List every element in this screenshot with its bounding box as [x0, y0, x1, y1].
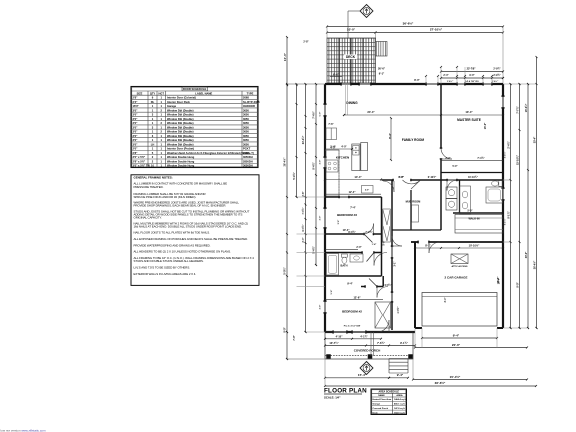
- svg-text:TYPE: TYPE: [247, 91, 254, 95]
- hall second arc: [383, 181, 394, 192]
- svg-text:7'-4¾": 7'-4¾": [477, 157, 484, 160]
- wall master suite bottom: [441, 179, 447, 181]
- svg-text:OHDOOR: OHDOOR: [243, 104, 255, 108]
- svg-text:30'-4": 30'-4": [533, 137, 536, 144]
- svg-text:2'-0": 2'-0": [356, 246, 361, 249]
- svg-text:15'-10¾": 15'-10¾": [516, 155, 519, 165]
- svg-text:2850DH: 2850DH: [243, 159, 253, 163]
- svg-text:9'-1¾": 9'-1¾": [507, 211, 510, 218]
- svg-text:ATTIC ACCESS: ATTIC ACCESS: [452, 265, 468, 268]
- svg-text:3050DH: 3050DH: [243, 155, 253, 159]
- door/window schedule table: [131, 87, 258, 168]
- svg-text:3'-0": 3'-0": [320, 216, 322, 221]
- svg-text:3050: 3050: [243, 117, 249, 121]
- fridge: [326, 128, 337, 140]
- svg-text:4'-0": 4'-0": [341, 146, 347, 149]
- svg-text:16'-0¾": 16'-0¾": [525, 104, 528, 112]
- svg-text:10'-10¾": 10'-10¾": [468, 176, 478, 179]
- master bath chase wall: [441, 172, 503, 174]
- svg-text:2'4": 2'4": [133, 100, 139, 104]
- svg-text:Window Dbl (Double): Window Dbl (Double): [167, 134, 194, 138]
- svg-text:1'-4": 1'-4": [372, 243, 377, 246]
- svg-text:36'-6½": 36'-6½": [435, 381, 446, 385]
- family room dim 8-4: [390, 118, 392, 160]
- svg-text:13'-4": 13'-4": [465, 110, 473, 114]
- svg-text:2'-8": 2'-8": [303, 41, 308, 44]
- svg-text:BEDROOM #2: BEDROOM #2: [342, 310, 362, 314]
- door hall2: [392, 236, 402, 246]
- svg-text:Interior Door Pack: Interior Door Pack: [167, 100, 190, 104]
- pantry box: [362, 186, 374, 194]
- svg-text:10'-7¼": 10'-7¼": [329, 341, 339, 345]
- master tub: [486, 187, 503, 203]
- svg-text:7'-4": 7'-4": [350, 205, 356, 209]
- svg-text:6'-0": 6'-0": [333, 73, 340, 77]
- svg-text:Window Dbl (Double): Window Dbl (Double): [167, 125, 194, 129]
- front door: [377, 320, 389, 332]
- svg-text:PROVIDE WATERPROOFING AND DRAI: PROVIDE WATERPROOFING AND DRAINS AS REQU…: [134, 243, 211, 247]
- svg-text:3'0": 3'0": [133, 134, 139, 138]
- svg-text:2'0": 2'0": [133, 147, 139, 151]
- garage top wall: [411, 241, 418, 243]
- svg-text:5'-0": 5'-0": [468, 211, 473, 213]
- svg-text:low rez version www.zillstatic: low rez version www.zillstatic.com: [1, 428, 47, 432]
- svg-text:2'8" x 5'0": 2'8" x 5'0": [133, 159, 146, 163]
- svg-text:Window Dbl (Double): Window Dbl (Double): [167, 113, 194, 117]
- right exterior wall: [502, 84, 504, 96]
- wall mudroom top: [382, 179, 394, 181]
- svg-text:16d NAILS AT EACH END. DOUBLE: 16d NAILS AT EACH END. DOUBLE ALL STUDS …: [134, 225, 243, 229]
- covered porch outline: [325, 332, 413, 359]
- washer/dryer stack: [446, 187, 457, 199]
- svg-text:36'-6½": 36'-6½": [403, 22, 414, 26]
- left dim chain 4: [315, 84, 317, 265]
- svg-text:23'-7/8": 23'-7/8": [467, 67, 477, 70]
- dim 15-4.5 bottom right: [413, 379, 527, 381]
- dim 15-4 / 9-4 bottom: [325, 377, 389, 379]
- kitchen counter: [326, 150, 339, 196]
- svg-text:Window Dbl (Double): Window Dbl (Double): [167, 121, 194, 125]
- svg-text:3'0": 3'0": [133, 125, 139, 129]
- svg-text:2'-0": 2'-0": [303, 238, 305, 243]
- svg-text:3'-0": 3'-0": [320, 160, 322, 165]
- hall closet bifold: [383, 209, 391, 242]
- svg-text:AREA: AREA: [396, 394, 403, 397]
- svg-text:BEDROOM #3: BEDROOM #3: [337, 213, 357, 217]
- svg-text:NAME: NAME: [378, 394, 385, 397]
- svg-text:5'-9": 5'-9": [365, 190, 369, 192]
- wall kitchen bottom: [325, 196, 339, 198]
- svg-text:LVL'S AND TJI'S TO BE SIZED BY: LVL'S AND TJI'S TO BE SIZED BY OTHERS.: [134, 266, 191, 270]
- svg-text:5'-4": 5'-4": [330, 290, 333, 295]
- svg-text:5'-0": 5'-0": [453, 166, 458, 168]
- wall bedroom2 entry: [361, 286, 365, 288]
- svg-text:Window Double Hung: Window Double Hung: [167, 155, 195, 159]
- svg-text:SL-BYP-2468: SL-BYP-2468: [243, 100, 260, 104]
- right dim chain 2: [519, 84, 521, 328]
- svg-text:DECK: DECK: [346, 55, 356, 59]
- bath tub: [327, 254, 339, 276]
- svg-text:2'-9¾": 2'-9¾": [493, 67, 500, 70]
- svg-text:10'-0": 10'-0": [347, 28, 356, 32]
- svg-text:3050: 3050: [243, 121, 249, 125]
- svg-text:8'-1": 8'-1": [425, 244, 431, 248]
- wall walk-in top: [453, 212, 503, 214]
- svg-text:3050: 3050: [243, 130, 249, 134]
- svg-text:3'-6": 3'-6": [338, 220, 340, 225]
- svg-text:HGT: HGT: [159, 91, 165, 95]
- svg-text:7'-4½": 7'-4½": [312, 111, 316, 118]
- svg-text:WALK-IN: WALK-IN: [468, 217, 479, 221]
- svg-text:3050: 3050: [243, 142, 249, 146]
- interior dim 24-4 / 13-4: [344, 114, 503, 116]
- dim porch detail: [325, 345, 415, 347]
- wall bath top: [325, 252, 362, 254]
- svg-text:2'-8": 2'-8": [303, 192, 305, 197]
- dim 36-6.5 top: [327, 26, 503, 28]
- svg-text:7'-0": 7'-0": [293, 335, 296, 340]
- svg-text:16'0": 16'0": [133, 104, 140, 108]
- svg-text:27'-10½": 27'-10½": [430, 28, 443, 32]
- dim garage 20-0: [415, 347, 527, 349]
- closet bifold bedroom2: [375, 302, 391, 328]
- top-right window dims: [441, 71, 503, 73]
- top exterior wall: [325, 83, 341, 85]
- stove: [326, 160, 338, 172]
- svg-text:DOOR SCHEDULE: DOOR SCHEDULE: [183, 87, 207, 91]
- right dim chain 1: [510, 84, 512, 328]
- bath toilet: [342, 254, 348, 257]
- svg-text:30'-0": 30'-0": [525, 252, 528, 259]
- door laundry: [447, 180, 458, 191]
- svg-text:10'-10½": 10'-10½": [469, 244, 480, 248]
- svg-text:14'-4": 14'-4": [354, 175, 362, 179]
- door bedroom2: [377, 287, 388, 298]
- svg-text:EXTERIOR WALLS IN LIVING AREAS: EXTERIOR WALLS IN LIVING AREAS ARE 2 X 4…: [134, 272, 197, 276]
- svg-text:3'0": 3'0": [133, 117, 139, 121]
- svg-text:9'-4": 9'-4": [347, 281, 353, 285]
- svg-text:3'-1": 3'-1": [395, 262, 397, 267]
- svg-text:AREA SCHEDULE: AREA SCHEDULE: [379, 390, 400, 393]
- svg-text:PRESSURE TREATED.: PRESSURE TREATED.: [134, 185, 164, 189]
- left dim chain 2: [296, 85, 298, 197]
- svg-text:KITCHEN: KITCHEN: [336, 156, 349, 160]
- svg-text:7'-6": 7'-6": [328, 123, 333, 126]
- svg-text:9'-0": 9'-0": [469, 74, 474, 77]
- svg-text:Covered Porch: Covered Porch: [373, 408, 389, 410]
- dim 36-6.5 bottom: [325, 385, 536, 387]
- svg-text:9'-0": 9'-0": [283, 327, 286, 332]
- svg-text:GENERAL FRAMING NOTES:: GENERAL FRAMING NOTES:: [134, 175, 173, 179]
- svg-text:ALL EXPOSED FRAMING ON PORCHES: ALL EXPOSED FRAMING ON PORCHES AND DECKS…: [134, 237, 249, 241]
- svg-text:36'-4½": 36'-4½": [282, 157, 286, 167]
- svg-text:4'-10": 4'-10": [336, 335, 344, 338]
- misc ticks interior: [324, 179, 326, 181]
- svg-text:10'-0": 10'-0": [283, 52, 287, 61]
- svg-text:9'-4": 9'-4": [453, 333, 460, 337]
- svg-text:7'-6¾": 7'-6¾": [377, 341, 386, 345]
- svg-text:2'-4": 2'-4": [443, 74, 448, 77]
- hall door panels: [364, 234, 373, 243]
- extension lines bottom: [414, 328, 416, 348]
- svg-text:24'-4¾": 24'-4¾": [302, 136, 305, 144]
- bath door arc: [374, 253, 387, 266]
- svg-text:2068: 2068: [243, 96, 249, 100]
- kitchen upper cabinets dashed: [338, 150, 340, 196]
- left dim 10-0 deck: [286, 37, 288, 85]
- svg-text:MASTER SUITE: MASTER SUITE: [457, 118, 481, 122]
- left dim chain 3: [305, 84, 307, 332]
- svg-text:LABEL NAME: LABEL NAME: [195, 91, 212, 95]
- dining extension lines: [345, 84, 347, 115]
- svg-text:164.0 sq ft: 164.0 sq ft: [394, 411, 405, 414]
- svg-text:12'-4": 12'-4": [349, 191, 357, 194]
- wall bedroom3 bottom: [325, 233, 364, 235]
- svg-text:2'-9¾": 2'-9¾": [493, 74, 500, 77]
- svg-text:8'-0¾": 8'-0¾": [348, 231, 355, 234]
- wall bath bottom: [325, 275, 382, 277]
- svg-text:3050: 3050: [243, 113, 249, 117]
- svg-text:1'-4": 1'-4": [330, 146, 336, 149]
- svg-text:3'0" x 5'0" TW: 3'0" x 5'0" TW: [133, 164, 151, 168]
- svg-text:Weathershield Ashford Arch Fib: Weathershield Ashford Arch Fiberglass Ex…: [167, 151, 254, 155]
- dim 10-0 deck top: [327, 32, 376, 34]
- svg-text:FAMILY ROOM: FAMILY ROOM: [402, 138, 424, 142]
- svg-text:Window Dbl (Double): Window Dbl (Double): [167, 130, 194, 134]
- dim 27-10.5 top: [376, 32, 504, 34]
- svg-text:1464.4 sq ft: 1464.4 sq ft: [394, 398, 406, 401]
- svg-text:9'-4¾": 9'-4¾": [313, 162, 316, 169]
- garage left wall: [414, 242, 416, 328]
- svg-text:2'8": 2'8": [133, 96, 139, 100]
- porch steps: [389, 358, 408, 360]
- svg-text:SPRUCE PINE FIR #1 AND/OR #2 (: SPRUCE PINE FIR #1 AND/OR #2 (KILN DRIED…: [134, 195, 197, 199]
- svg-text:Interior Door (Colonial): Interior Door (Colonial): [167, 96, 196, 100]
- svg-text:Window Dbl (Double): Window Dbl (Double): [167, 108, 194, 112]
- dim garage 9-4: [422, 337, 497, 339]
- svg-text:3'0" x 5'0": 3'0" x 5'0": [133, 155, 146, 159]
- deck label: [344, 55, 357, 60]
- mudroom wall: [410, 190, 412, 230]
- mudroom bench: [412, 205, 419, 222]
- svg-text:5'-0¾": 5'-0¾": [283, 267, 286, 274]
- island sink: [353, 146, 359, 156]
- svg-text:2868: 2868: [243, 151, 249, 155]
- svg-text:26'-6": 26'-6": [378, 66, 386, 70]
- svg-text:Heated Floor Area: Heated Floor Area: [373, 398, 393, 401]
- garage front wall: [415, 327, 422, 329]
- svg-text:3050: 3050: [243, 134, 249, 138]
- svg-text:5'-0": 5'-0": [320, 112, 322, 117]
- ticks right chains: [510, 83, 512, 85]
- master toilet: [492, 181, 499, 186]
- svg-text:Deck: Deck: [373, 412, 379, 414]
- hall wall left: [381, 197, 383, 276]
- svg-text:2 CAR GARAGE: 2 CAR GARAGE: [444, 276, 467, 280]
- svg-text:8'-4": 8'-4": [388, 132, 392, 139]
- svg-text:PCKT: PCKT: [243, 147, 251, 151]
- svg-text:9'-4": 9'-4": [397, 373, 404, 377]
- svg-text:2'-0¾": 2'-0¾": [365, 231, 372, 234]
- svg-text:RL: RL: [151, 100, 155, 104]
- deck stairs: [376, 42, 388, 57]
- svg-text:ALL HEADERS TO BE (2) 2 X 10 U: ALL HEADERS TO BE (2) 2 X 10 UNLESS NOTE…: [134, 250, 232, 254]
- porch post lines: [370, 332, 372, 356]
- svg-text:7'-0¾": 7'-0¾": [302, 208, 305, 215]
- svg-text:15'-4½": 15'-4½": [450, 375, 461, 379]
- svg-text:Garage: Garage: [373, 404, 381, 406]
- svg-text:Window Dbl (Double): Window Dbl (Double): [167, 138, 194, 142]
- svg-text:9'-1¾": 9'-1¾": [504, 219, 507, 226]
- section marker (top): [360, 5, 373, 18]
- master vanity: [460, 186, 471, 214]
- svg-text:3'0": 3'0": [133, 121, 139, 125]
- porch posts: [327, 355, 331, 359]
- svg-text:6'-0¾": 6'-0¾": [385, 284, 392, 287]
- svg-text:3'-0": 3'-0": [320, 305, 322, 310]
- svg-text:5'-9¾": 5'-9¾": [293, 172, 296, 179]
- svg-text:4'-0": 4'-0": [398, 176, 403, 179]
- svg-text:2'-5¾": 2'-5¾": [504, 152, 507, 159]
- svg-text:NAIL FLOOR JOISTS TO ALL PLATE: NAIL FLOOR JOISTS TO ALL PLATES WITH 8d …: [134, 231, 211, 235]
- garage door panel: [422, 293, 497, 327]
- svg-text:6'-10½": 6'-10½": [428, 175, 436, 179]
- svg-text:3050DH: 3050DH: [243, 164, 253, 168]
- svg-text:20'-0": 20'-0": [452, 343, 461, 347]
- kitchen island: [352, 144, 360, 171]
- svg-text:16'-4": 16'-4": [498, 278, 501, 285]
- svg-text:MUD ROOM: MUD ROOM: [406, 200, 421, 204]
- svg-text:DINING: DINING: [346, 101, 358, 105]
- bottom exterior wall (bedroom wing): [325, 331, 333, 333]
- svg-text:466.1 sq ft: 466.1 sq ft: [394, 403, 405, 406]
- svg-text:9'-1¾": 9'-1¾": [400, 341, 409, 345]
- svg-text:14'-4 7/8" RO: 14'-4 7/8" RO: [465, 80, 479, 83]
- svg-text:QTY: QTY: [150, 91, 156, 95]
- svg-text:Window Double Hung: Window Double Hung: [167, 164, 195, 168]
- svg-text:3050: 3050: [243, 125, 249, 129]
- svg-text:3'-4": 3'-4": [444, 298, 447, 303]
- svg-text:6'-0¾": 6'-0¾": [302, 225, 305, 232]
- right dim chain 3: [527, 84, 529, 328]
- svg-text:Window Double Hung: Window Double Hung: [167, 159, 195, 163]
- svg-text:4'-1¾": 4'-1¾": [360, 335, 368, 338]
- svg-text:2'-4¾": 2'-4¾": [507, 141, 510, 148]
- area schedule table: [371, 389, 407, 415]
- wall mudroom/hall: [392, 229, 441, 231]
- deck joist lines: [338, 38, 340, 83]
- svg-text:3050: 3050: [243, 138, 249, 142]
- svg-text:9'-0": 9'-0": [516, 282, 519, 287]
- svg-text:Window Dbl (Double): Window Dbl (Double): [167, 117, 194, 121]
- svg-text:3050: 3050: [243, 108, 249, 112]
- svg-text:Garage: Garage: [167, 104, 177, 108]
- walk-in shelves: [455, 215, 503, 234]
- svg-text:Window Dbl (Double): Window Dbl (Double): [167, 142, 194, 146]
- svg-text:16'-0": 16'-0": [484, 123, 487, 130]
- general framing notes box: [131, 175, 259, 286]
- svg-text:LH: LH: [151, 142, 155, 146]
- extension lines left: [297, 196, 326, 198]
- laundry wall: [459, 180, 461, 213]
- svg-text:2'8": 2'8": [133, 151, 139, 155]
- svg-text:SIZE: SIZE: [137, 91, 143, 95]
- svg-text:FLOOR PLAN: FLOOR PLAN: [324, 388, 367, 395]
- svg-text:15'-4": 15'-4": [358, 373, 367, 377]
- svg-text:7'-7¾": 7'-7¾": [516, 106, 519, 113]
- svg-text:BATH: BATH: [340, 264, 347, 268]
- svg-text:3'0": 3'0": [133, 130, 139, 134]
- svg-text:2'-4": 2'-4": [445, 157, 450, 160]
- svg-text:5'-8": 5'-8": [384, 241, 386, 246]
- svg-text:COVERED PORCH: COVERED PORCH: [354, 349, 381, 353]
- deck with board hatch: [327, 38, 376, 83]
- svg-text:3'0": 3'0": [133, 138, 139, 142]
- svg-text:24'-4": 24'-4": [367, 110, 375, 114]
- hall wall right: [391, 180, 393, 246]
- garage entry door arc: [429, 242, 440, 253]
- wall bedroom2 entry side: [382, 276, 384, 287]
- svg-text:147.8 sq ft: 147.8 sq ft: [394, 407, 405, 410]
- svg-text:3'0": 3'0": [133, 108, 139, 112]
- section marker (bottom): [360, 362, 373, 375]
- extension lines top: [425, 76, 427, 84]
- svg-text:F/x 2 x 6'-0" DW: F/x 2 x 6'-0" DW: [344, 326, 361, 328]
- svg-text:Interior Door (Pocket): Interior Door (Pocket): [167, 147, 194, 151]
- kitchen dim 14-4: [325, 179, 381, 181]
- mudroom door arc: [403, 180, 421, 184]
- svg-text:8'-0": 8'-0": [414, 79, 420, 82]
- bath sink: [350, 254, 363, 262]
- svg-text:ORIGINAL CAPACITY.: ORIGINAL CAPACITY.: [134, 216, 163, 220]
- right dim chain 4: [536, 57, 538, 328]
- ticks top dims: [425, 75, 427, 77]
- svg-text:36'-4½": 36'-4½": [532, 261, 536, 269]
- svg-text:12'-6": 12'-6": [353, 295, 361, 299]
- section leader line: [348, 10, 360, 12]
- svg-text:SCALE: 1/4": SCALE: 1/4": [324, 396, 341, 400]
- svg-text:PROVIDE SHOP DRAWINGS, EACH BE: PROVIDE SHOP DRAWINGS, EACH BEAR SEAL OF…: [134, 204, 227, 208]
- door bedroom3: [363, 224, 374, 235]
- ticks on left chains: [286, 83, 288, 85]
- svg-text:3'0": 3'0": [133, 113, 139, 117]
- svg-text:9'-1": 9'-1": [379, 72, 385, 76]
- left exterior wall: [324, 84, 326, 104]
- svg-text:STUDS AND DOUBLE STUDS UNDER A: STUDS AND DOUBLE STUDS UNDER ALL HEADERS…: [134, 259, 204, 263]
- attic access: [451, 254, 468, 264]
- svg-text:3'0": 3'0": [133, 142, 139, 146]
- wall family/master: [440, 84, 442, 148]
- master door arc: [441, 148, 452, 159]
- left dim chain outer: [286, 85, 288, 359]
